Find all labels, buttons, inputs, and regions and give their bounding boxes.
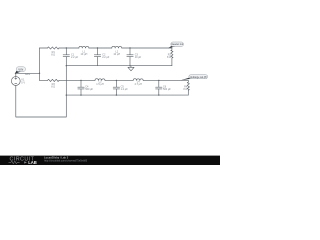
wire top rail seg1 <box>40 47 48 49</box>
svg-text:2.2 µF: 2.2 µF <box>102 56 110 59</box>
svg-text:VIN: VIN <box>18 68 23 72</box>
inductor L1 <box>79 46 89 48</box>
wire mid rail seg3 <box>105 79 133 81</box>
wire mid rail seg1 <box>40 79 48 81</box>
svg-text:8 Ω: 8 Ω <box>183 88 187 91</box>
svg-text:midrange out (8): midrange out (8) <box>190 76 207 79</box>
wire return rail A <box>66 65 172 67</box>
wire return rail B <box>66 94 188 96</box>
svg-text:http://circuitlab.com/c/swmsd7: http://circuitlab.com/c/swmsd75e5eb85 <box>44 159 88 162</box>
CircuitLab logo <box>9 156 37 165</box>
wire source top lead <box>16 73 40 76</box>
resistor R2 <box>171 48 173 66</box>
wire input vertical <box>39 48 41 80</box>
svg-text:8 Ω: 8 Ω <box>51 53 55 56</box>
node flag VIN at source <box>15 67 26 74</box>
svg-text:10 µF: 10 µF <box>135 56 142 59</box>
capacitor C5 <box>113 80 119 95</box>
footer bar <box>0 156 220 165</box>
svg-text:1.5 µH: 1.5 µH <box>96 83 104 86</box>
resistor R3 <box>48 79 60 81</box>
wire top rail seg3 <box>89 47 112 49</box>
inductor L3 <box>95 79 105 81</box>
svg-text:4.7 µH: 4.7 µH <box>134 83 142 86</box>
node flag tweeter out <box>168 42 183 48</box>
wire top rail seg4 <box>122 47 172 49</box>
junction dots <box>39 47 160 96</box>
resistor R4 <box>187 80 189 95</box>
capacitor C1 <box>63 48 69 66</box>
svg-text:5 V: 5 V <box>21 81 25 84</box>
capacitor C2 <box>94 48 100 66</box>
svg-text:8 Ω: 8 Ω <box>167 56 171 59</box>
resistor R1 <box>48 47 60 49</box>
svg-text:10 µH: 10 µH <box>81 53 88 56</box>
node flag midrange out <box>181 75 208 81</box>
capacitor C4 <box>78 80 84 95</box>
inductor L4 <box>133 79 143 81</box>
svg-text:tweeter out: tweeter out <box>171 43 183 46</box>
capacitor C3 <box>127 48 133 66</box>
inductor L2 <box>112 46 122 48</box>
svg-text:8 Ω: 8 Ω <box>51 86 55 89</box>
svg-text:10 µH: 10 µH <box>113 53 120 56</box>
wire mid rail seg2 <box>59 79 95 81</box>
wire top rail seg2 <box>59 47 79 49</box>
capacitor C6 <box>156 80 162 95</box>
svg-text:500 µF: 500 µF <box>163 88 171 91</box>
svg-text:LAB: LAB <box>28 160 37 165</box>
svg-text:1.2 µF: 1.2 µF <box>121 88 129 91</box>
ground <box>128 66 134 71</box>
voltage source V1 <box>11 77 20 86</box>
svg-text:560 µF: 560 µF <box>85 88 93 91</box>
svg-text:SW1: SW1 <box>25 73 31 76</box>
svg-text:2.2 µF: 2.2 µF <box>71 56 79 59</box>
wire mid rail seg4 <box>143 79 188 81</box>
wire ground vertical and source loop <box>16 66 67 117</box>
